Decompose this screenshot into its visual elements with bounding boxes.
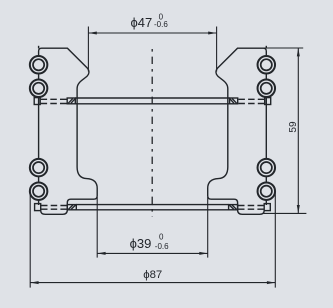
eyelet terminal E3 bbox=[30, 159, 48, 177]
extension line left bbox=[96, 197, 98, 258]
extension line top bbox=[264, 47, 304, 49]
extension line right bbox=[216, 27, 218, 72]
top flange plate lines bbox=[75, 97, 152, 99]
arrowheads phi47 bbox=[88, 32, 96, 35]
dimension line bbox=[30, 282, 275, 284]
dimension phi47 bbox=[88, 27, 216, 72]
centerline (vertical dash-dot axis) bbox=[151, 49, 153, 217]
dimension 59 (vertical, right side) bbox=[264, 48, 307, 213]
right half of bobbin body (mirror) bbox=[152, 46, 275, 215]
arrowheads phi39 bbox=[97, 252, 105, 255]
bottom flange end cap (left) bbox=[35, 204, 41, 211]
dimension line bbox=[97, 252, 208, 254]
top flange hidden (dashed) lines bbox=[41, 98, 68, 100]
bottom flange hidden (dashed) lines bbox=[41, 205, 67, 207]
svg-text:ϕ87: ϕ87 bbox=[143, 269, 162, 281]
extension line left bbox=[29, 192, 31, 288]
svg-text:-0.6: -0.6 bbox=[154, 20, 168, 29]
top flange end cap (left) bbox=[34, 98, 40, 105]
dimension phi39 bbox=[97, 197, 208, 258]
arrowheads 59 bbox=[297, 48, 300, 56]
top flange section hatch box bbox=[67, 98, 75, 104]
dimension line bbox=[297, 48, 299, 213]
svg-text:-0.6: -0.6 bbox=[155, 242, 169, 251]
svg-text:ϕ47: ϕ47 bbox=[131, 15, 153, 30]
bottom flange plate lines bbox=[76, 204, 152, 206]
terminal leg stub above top corner bbox=[38, 46, 40, 49]
eyelet terminal E4 bbox=[30, 182, 48, 200]
left half of bobbin body bbox=[30, 46, 153, 215]
eyelet terminal E2 bbox=[30, 80, 48, 98]
svg-text:59: 59 bbox=[288, 121, 299, 133]
bottom flange section hatch box bbox=[67, 205, 76, 210]
dimension phi87 bbox=[30, 192, 275, 288]
svg-text:0: 0 bbox=[159, 233, 164, 242]
extension line right bbox=[207, 197, 209, 258]
eyelet terminal E1 (top outer) bbox=[30, 56, 48, 200]
extension line bottom bbox=[264, 212, 307, 214]
svg-text:ϕ39: ϕ39 bbox=[130, 236, 152, 251]
extension line left bbox=[87, 27, 89, 72]
arrowheads phi87 bbox=[30, 281, 38, 284]
extension line right bbox=[274, 192, 276, 288]
dimension line bbox=[88, 32, 216, 34]
body outline: left edge, top edge, chamfer, bulge, waist, neck, foot bbox=[39, 48, 98, 214]
